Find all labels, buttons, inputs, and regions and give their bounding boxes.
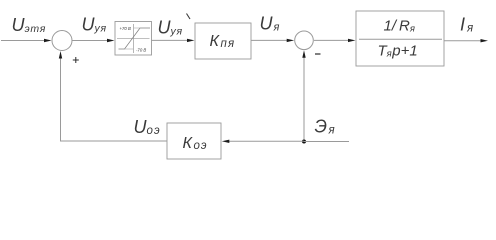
wire Eya input [304,141,349,143]
svg-text:-70 В: -70 В [136,47,146,52]
svg-text:Uя: Uя [260,14,280,34]
summing junction S2 [295,31,314,50]
node Uoe label [134,117,161,137]
wire Koe to S1 (feedback rail) [59,51,167,141]
node Iya label [460,15,473,35]
node Eya label [315,117,335,137]
svg-text:Uуя: Uуя [82,15,107,35]
wire input to summing junction [1,39,52,42]
svg-text:Эя: Эя [315,117,335,137]
node Uya-prime label [158,14,191,38]
wire node to Koe block [222,140,304,143]
junction node dot [302,140,306,144]
svg-text:Iя: Iя [460,15,473,35]
saturation block (limiter) [115,22,152,56]
svg-text:+70 В: +70 В [120,26,131,31]
gain block Kpya [195,23,251,59]
svg-text:Тяp+1: Тяp+1 [378,43,418,60]
output wire Iya [444,39,488,42]
wire S1 to saturation block [72,39,115,42]
transfer function block 1/Rya over Tya p+1 [356,11,444,66]
wire saturation block to Kpya [152,39,195,42]
minus sign at S2 [315,53,321,55]
wire S2 to armature block [314,39,356,42]
svg-text:Uэтя: Uэтя [12,15,47,35]
feedback gain block Koe [167,123,221,159]
svg-text:Uуя: Uуя [158,18,183,38]
summing junction S1 [52,31,72,51]
svg-text:Uоэ: Uоэ [134,117,161,137]
plus sign at S1 [73,57,79,63]
node Uya2 label [260,14,280,34]
node Uya label [82,15,107,35]
node Uetya label [12,15,47,35]
wire Kpya to summing junction S2 [251,39,294,42]
wire feedback vertical from node to S2 [302,50,305,141]
